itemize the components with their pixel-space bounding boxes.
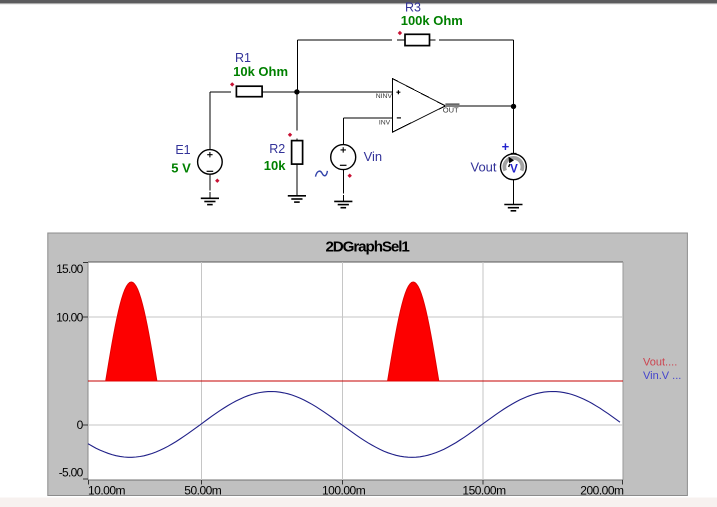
voltmeter Vout [501, 153, 527, 179]
curve Vout red pulse 2 [388, 282, 439, 381]
pin marker dot at R3 [398, 31, 402, 35]
pin marker dot at R2 [288, 133, 292, 137]
svg-text:2DGraphSel1: 2DGraphSel1 [325, 238, 410, 255]
wire OUT pin tab [445, 103, 459, 105]
ground under R2 [288, 196, 306, 202]
svg-text:INV: INV [379, 119, 391, 126]
svg-text:150.00m: 150.00m [462, 484, 506, 498]
node junction at R1/R2/NINV [294, 89, 299, 94]
wire R1 right to NINV [262, 91, 392, 93]
svg-text:5 V: 5 V [171, 160, 191, 175]
svg-text:10k: 10k [264, 158, 286, 173]
resistor R3 [405, 34, 430, 45]
pin marker dot at Vin [348, 174, 352, 178]
svg-text:100k Ohm: 100k Ohm [401, 13, 463, 28]
svg-text:Vout....: Vout.... [643, 356, 677, 368]
node junction at OUT/Vout [511, 104, 516, 109]
x axis ticks [88, 480, 622, 484]
wire feedback left vertical [297, 40, 299, 92]
wire R2 top vertical [296, 92, 298, 130]
curve Vout red baseline [88, 381, 623, 382]
wire E1 top vertical [209, 92, 211, 150]
wire Vout bottom to ground [512, 180, 514, 205]
source E1 [198, 150, 223, 175]
wire right vertical to meter [513, 40, 515, 154]
top window border bar [0, 0, 717, 4]
source Vin sine tilde symbol [316, 171, 328, 177]
svg-text:15.00: 15.00 [56, 262, 84, 276]
ground under Vout [504, 205, 522, 211]
wire R2 bottom to ground [296, 164, 298, 195]
graph panel background [48, 233, 688, 496]
svg-text:100.00m: 100.00m [322, 484, 366, 498]
gridline vertical 100m [342, 262, 344, 480]
svg-text:V: V [510, 163, 518, 175]
source Vin sine generator [331, 145, 356, 170]
svg-text:R2: R2 [269, 142, 285, 156]
wire E1 top horizontal [210, 91, 231, 93]
svg-text:10k Ohm: 10k Ohm [233, 64, 288, 79]
pin marker dot at E1 [215, 179, 219, 183]
curve Vout red pulse 1 [106, 282, 157, 381]
svg-text:NINV: NINV [376, 93, 393, 100]
plot area [88, 262, 623, 480]
resistor R2 [292, 141, 303, 165]
svg-text:10.00m: 10.00m [88, 484, 126, 498]
ground under Vin [334, 201, 352, 207]
ground under E1 [201, 198, 219, 204]
svg-text:Vin.V ...: Vin.V ... [643, 370, 681, 382]
wire R3 right pin stub [430, 39, 436, 41]
svg-text:10.00: 10.00 [56, 310, 84, 324]
pin marker dot at R1 [230, 82, 234, 86]
svg-text:Vin: Vin [364, 149, 383, 164]
resistor R1 [236, 86, 262, 97]
svg-text:Vout: Vout [470, 160, 496, 175]
svg-text:E1: E1 [175, 143, 190, 157]
gridline horizontal 0 [88, 424, 623, 426]
wire Vin bottom segment [342, 170, 344, 194]
svg-text:+: + [502, 139, 510, 154]
wire Vin top vertical [342, 118, 344, 145]
wire R2 top pin stub [296, 138, 298, 140]
wire top feedback left segment [298, 39, 392, 41]
bottom strip [0, 498, 717, 507]
svg-text:OUT: OUT [443, 105, 459, 114]
svg-text:50.00m: 50.00m [184, 484, 222, 498]
gridline horizontal 10 [88, 316, 623, 318]
wire Vin ground stub [342, 195, 344, 201]
svg-text:200.00m: 200.00m [580, 484, 624, 498]
op-amp U1 [393, 79, 446, 133]
y axis ticks [83, 262, 88, 479]
gridline vertical 50m [201, 262, 203, 480]
wire E1 bottom segment [209, 174, 211, 190]
wire E1 ground stub [209, 192, 211, 198]
wire R3 left pin stub [397, 39, 405, 41]
wire Vin to INV horizontal [343, 117, 392, 119]
curve Vin blue sine [88, 392, 620, 458]
gridline vertical 150m [482, 262, 484, 480]
svg-text:-5.00: -5.00 [59, 465, 84, 479]
wire OUT horizontal [445, 105, 513, 107]
svg-text:0: 0 [77, 418, 84, 432]
wire top feedback right segment [439, 39, 514, 41]
